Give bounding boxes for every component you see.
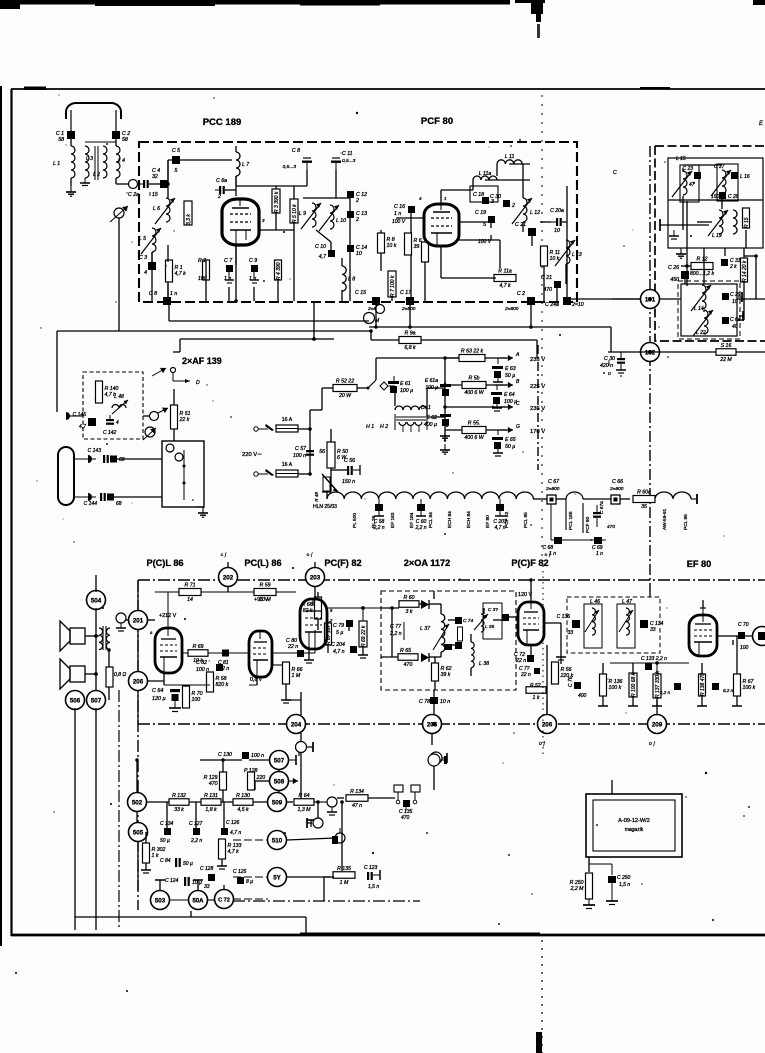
svg-text:L 10: L 10 [336, 218, 346, 224]
resistor R140 [96, 381, 119, 403]
capacitor C67a [593, 501, 615, 530]
scan artifact top blob [515, 0, 545, 38]
svg-text:R 4 390: R 4 390 [276, 262, 282, 280]
wire plate rail [259, 229, 294, 231]
wire 502 up [136, 760, 138, 792]
wire r100 d [632, 697, 634, 706]
node 502 [128, 793, 147, 812]
wire col 278 [277, 280, 279, 301]
label 100 V [478, 239, 492, 245]
label L12 [530, 210, 540, 216]
wire [441, 277, 496, 279]
junction spk2 [94, 672, 98, 676]
capacitor C57 [293, 443, 314, 465]
svg-text:C 3: C 3 [139, 255, 147, 261]
svg-text:C 8: C 8 [292, 148, 300, 154]
wire R12 l [681, 265, 691, 267]
resistor R71 [179, 583, 201, 604]
svg-text:100: 100 [192, 697, 201, 703]
capacitor C76b [568, 676, 587, 699]
label L10 [336, 218, 346, 224]
cut label E [759, 121, 764, 127]
IF unit dashed box [655, 146, 765, 341]
svg-text:D: D [196, 380, 200, 386]
wire fuse1 [298, 428, 310, 430]
capacitor C143 [88, 448, 125, 463]
junction q [221, 758, 225, 762]
heater label PCF 82 [504, 511, 510, 528]
wire c15 dn [375, 305, 377, 327]
label R2 [198, 258, 206, 264]
arrow C [500, 404, 513, 410]
svg-text:204: 204 [291, 721, 302, 728]
svg-text:E 65: E 65 [505, 437, 516, 443]
coil L16 [711, 170, 731, 196]
label +212V [159, 613, 177, 619]
wire r134 l [337, 797, 344, 799]
svg-text:4,7 n: 4,7 n [230, 830, 241, 836]
switch H1 [366, 380, 376, 430]
capacitor C18 box [470, 186, 498, 205]
capacitor C80 [286, 638, 304, 657]
capacitor C67 [545, 479, 560, 504]
heater loop left [550, 504, 552, 540]
svg-text:22 n: 22 n [515, 658, 526, 664]
resistor R60 [399, 595, 419, 615]
node 511 [268, 868, 287, 887]
wire R10 dn [424, 262, 426, 301]
svg-text:R 60: R 60 [404, 595, 415, 601]
wire pcf82 down [530, 645, 532, 655]
wire g rail dn [444, 430, 446, 442]
capacitor C20a [550, 208, 564, 234]
coil L46 [584, 599, 602, 648]
svg-text:C 56: C 56 [344, 458, 355, 464]
svg-text:L 46: L 46 [590, 599, 600, 605]
wire R14 d [743, 282, 745, 299]
svg-text:C 123: C 123 [364, 865, 378, 871]
wire col 152b [151, 270, 153, 301]
wire net bottom drop [305, 917, 307, 934]
capacitor C1 [56, 131, 75, 143]
AF amp dashed box [83, 372, 143, 439]
svg-text:39 k: 39 k [441, 672, 451, 678]
svg-text:5Y: 5Y [273, 874, 281, 881]
svg-text:C 2: C 2 [517, 291, 525, 297]
wire ef80 grid [610, 663, 689, 674]
wire y340 drop [370, 331, 372, 340]
svg-text:400 6 W: 400 6 W [464, 390, 484, 396]
svg-text:400: 400 [578, 693, 587, 699]
junction i [166, 299, 170, 303]
wire c130 [200, 759, 242, 761]
wire heater l [322, 491, 331, 493]
svg-text:EF 80: EF 80 [485, 515, 491, 528]
svg-text:L 48: L 48 [114, 394, 124, 400]
wire if mid [697, 221, 712, 223]
IF inner box [668, 158, 763, 248]
heater chain coils [327, 492, 533, 499]
svg-text:PCF 80: PCF 80 [585, 516, 591, 533]
antenna VHF dipole [66, 103, 121, 140]
switch arrow 2 [152, 408, 168, 416]
svg-text:B: B [516, 379, 520, 385]
capacitor E65 [492, 430, 516, 456]
wire L11 top [496, 164, 498, 176]
wire [167, 245, 169, 262]
capacitor C4 blob [152, 168, 168, 188]
svg-text:C 79: C 79 [333, 623, 344, 629]
wire fuse2 [298, 473, 310, 475]
wire dr1 top [394, 388, 396, 406]
resistor R16 [716, 343, 736, 363]
ground R250 [583, 899, 595, 909]
wire dr1 r [426, 388, 428, 417]
wire if l15 [682, 168, 684, 172]
border top [11, 87, 765, 91]
tuner inner line [183, 450, 186, 500]
resistor R65 [398, 654, 418, 668]
wire c79 lk [348, 627, 350, 631]
wire y327 [369, 326, 611, 328]
svg-text:470: 470 [607, 524, 615, 530]
svg-text:505: 505 [133, 829, 144, 836]
wire [167, 184, 169, 199]
wire heater start [326, 492, 328, 499]
wire C26 d [684, 279, 686, 284]
speaker LS2 [60, 659, 85, 689]
junction det [361, 606, 365, 610]
uhf feed top [74, 455, 96, 463]
label 235V A [530, 357, 545, 363]
node 507 [87, 691, 106, 710]
svg-text:R 49: R 49 [314, 492, 319, 502]
wire 206b up [546, 645, 548, 715]
resistor R4 [275, 260, 282, 280]
svg-text:R 5b: R 5b [469, 376, 480, 382]
wire sw rail [375, 358, 377, 380]
wire 201 202 [148, 619, 155, 621]
svg-text:P(C)L 86: P(C)L 86 [146, 558, 183, 568]
wire r138 d [701, 696, 703, 706]
capacitor C250 [608, 875, 631, 901]
fold dotted lower [542, 560, 544, 755]
wire 204 up [300, 692, 302, 715]
capacitor C137 [712, 683, 734, 693]
wire r302 gd [145, 863, 147, 870]
svg-text:507: 507 [274, 757, 285, 764]
svg-text:C 57: C 57 [295, 446, 307, 452]
svg-text:C 145: C 145 [73, 412, 87, 418]
svg-text:10: 10 [732, 299, 738, 305]
switch arrow 1 [152, 368, 166, 376]
label L22 [696, 330, 706, 336]
svg-text:502: 502 [132, 799, 143, 806]
svg-text:C 144: C 144 [84, 501, 98, 507]
wire C rail [445, 406, 507, 408]
heater label EF 80 [485, 515, 491, 528]
svg-text:4: 4 [116, 420, 119, 426]
node 102 [641, 343, 660, 362]
junction f [443, 405, 447, 409]
wire y340 [371, 339, 537, 341]
wire 511 dash [233, 898, 268, 900]
svg-text:10 k: 10 k [387, 243, 397, 249]
node 201 [129, 611, 148, 630]
svg-text:2,2 M: 2,2 M [570, 886, 585, 892]
capacitor C134b [160, 821, 174, 844]
svg-text:R 69: R 69 [193, 644, 204, 650]
svg-text:4,5 k: 4,5 k [237, 807, 249, 813]
label L19 [712, 233, 722, 239]
svg-text:120 V: 120 V [518, 592, 532, 598]
wire [235, 176, 237, 196]
svg-text:2=800: 2=800 [504, 306, 519, 312]
tube PCF82b envelope [518, 602, 544, 645]
tube PCF82a envelope [300, 599, 333, 649]
terminal 507r [295, 748, 303, 756]
svg-text:PCL 86: PCL 86 [683, 514, 689, 530]
wire det rail [381, 607, 399, 609]
svg-text:G: G [516, 424, 520, 430]
resistor R136 [600, 674, 623, 696]
svg-text:509: 509 [272, 799, 283, 806]
network frame [139, 747, 302, 749]
capacitor C204 [331, 642, 357, 655]
junction spk [94, 634, 98, 638]
resistor R70 [183, 686, 203, 708]
tube PCL86 envelope [150, 628, 182, 673]
capacitor C27 blob [731, 172, 750, 180]
svg-text:2=800: 2=800 [609, 486, 624, 492]
svg-text:E 61: E 61 [400, 381, 411, 387]
svg-text:C 142: C 142 [103, 430, 117, 436]
junction r [432, 722, 436, 726]
capacitor C7 [224, 258, 234, 283]
coil L14 [691, 285, 711, 311]
wire pcl86b dn [256, 677, 258, 685]
svg-text:3: 3 [262, 218, 265, 223]
fuse 1 [254, 417, 298, 432]
wire L38 t [470, 634, 472, 642]
svg-text:PCL 185: PCL 185 [568, 511, 574, 530]
wire c74 r [509, 616, 516, 618]
node 508 [270, 772, 289, 791]
svg-text:14: 14 [187, 597, 193, 603]
label 2xAF 139 [182, 356, 222, 366]
svg-text:1 n: 1 n [394, 211, 401, 217]
wire col 152 [151, 252, 153, 262]
wire 502 down [136, 812, 138, 822]
svg-text:C 3?: C 3? [488, 607, 498, 613]
coil L19 [708, 210, 728, 236]
svg-text:HLN 25/03: HLN 25/03 [313, 504, 337, 510]
svg-text:50 µ: 50 µ [505, 444, 515, 450]
wire [85, 141, 116, 143]
transformer core [95, 146, 98, 180]
resistor R50 [319, 442, 348, 468]
label R65 [400, 648, 411, 654]
wire bus 443b [427, 416, 445, 418]
wire cath col [235, 245, 237, 301]
wire L11 r [509, 163, 530, 165]
wire audio sig [182, 652, 249, 654]
capacitor C135b [659, 683, 681, 695]
svg-text:R 63 22 k: R 63 22 k [461, 349, 484, 355]
wire 202 up [227, 562, 229, 568]
wire if 756d [755, 256, 757, 299]
capacitor C134 [640, 620, 664, 633]
svg-text:C 30: C 30 [604, 356, 615, 362]
wire r52 r [357, 387, 368, 389]
coil L10 [319, 205, 339, 231]
wire pcf topr [441, 189, 473, 191]
svg-text:1,8 k: 1,8 k [205, 807, 217, 813]
svg-text:220 V∼: 220 V∼ [242, 452, 262, 458]
capacitor C135 [399, 800, 413, 821]
junction if 687 [685, 264, 689, 268]
wire 204 net [286, 699, 301, 701]
wire 0R8 bot [108, 687, 110, 700]
svg-text:1,3 M: 1,3 M [298, 807, 312, 813]
terminal M [364, 313, 375, 324]
svg-text:120 µ: 120 µ [152, 696, 166, 702]
resistor R14 [741, 258, 748, 282]
svg-text:L 13: L 13 [572, 252, 582, 258]
label o 209 [649, 741, 656, 747]
capacitor C2 [112, 131, 130, 143]
wire top rail pcc [167, 160, 169, 184]
svg-text:50 µ: 50 µ [183, 861, 193, 867]
cap bar L14 [738, 292, 742, 302]
heater label PL 36 [371, 515, 377, 528]
coil L35 [474, 614, 495, 632]
wire cath rail2 [249, 684, 257, 686]
terminal o below 102 [608, 360, 611, 377]
label 170V G [530, 429, 545, 435]
svg-text:C 72: C 72 [218, 897, 230, 903]
wire 510 r [287, 838, 335, 840]
svg-text:506: 506 [70, 697, 81, 704]
node 505 [129, 823, 148, 842]
svg-text:420 n: 420 n [600, 363, 613, 369]
svg-text:PL 500: PL 500 [352, 513, 358, 528]
svg-text:C 20a: C 20a [550, 208, 564, 214]
wire 510 left [233, 840, 268, 877]
wire heater bottom [551, 539, 606, 541]
svg-text:1 k: 1 k [533, 695, 540, 701]
capacitor C127 [189, 821, 203, 844]
svg-text:R 5?: R 5? [530, 683, 541, 689]
wire C2xa drop [313, 301, 315, 339]
capacitor C26 [668, 265, 689, 283]
capacitor C6b [722, 317, 741, 330]
switch H2 [380, 382, 388, 430]
svg-text:C 17: C 17 [400, 290, 412, 296]
diode D2 [421, 653, 429, 662]
svg-text:H 1: H 1 [366, 424, 374, 430]
capacitor C82 [196, 659, 223, 673]
wire R8 col [380, 230, 382, 233]
wire C16 col [410, 213, 412, 233]
coil L47 [617, 599, 635, 648]
wire L37 t [440, 604, 442, 614]
junction c [369, 329, 373, 333]
ground r133 [217, 866, 227, 869]
test arrow [110, 206, 128, 222]
capacitor E62 [424, 414, 451, 428]
capacitor C136 [557, 614, 580, 636]
wire if top [683, 164, 722, 166]
node 209 [648, 715, 667, 734]
svg-text:470: 470 [543, 287, 552, 293]
svg-text:C: C [516, 401, 520, 407]
wire r69b dn [362, 647, 364, 655]
circle below 204 [296, 742, 314, 753]
svg-text:0,5...3: 0,5...3 [342, 158, 356, 164]
svg-text:L 37: L 37 [420, 626, 431, 632]
terminal T 510 [307, 820, 315, 827]
wire R71 line [155, 592, 296, 628]
node 206 [538, 715, 557, 734]
wire to 205 [433, 690, 435, 715]
svg-text:1 n: 1 n [249, 276, 256, 282]
node 203 [306, 568, 325, 587]
svg-text:1 M: 1 M [340, 880, 349, 886]
svg-text:100 k: 100 k [743, 685, 756, 691]
wire bus 443 [444, 358, 446, 430]
svg-text:50 µ: 50 µ [505, 373, 515, 379]
wire pcl86 dn [163, 673, 165, 685]
svg-text:20 W: 20 W [338, 393, 352, 399]
svg-text:o❘: o❘ [539, 741, 546, 747]
svg-text:a: a [150, 630, 153, 635]
wire c130 stub [289, 755, 296, 765]
capacitor C24a [545, 297, 584, 308]
svg-text:C 10: C 10 [315, 244, 326, 250]
svg-text:L 2: L 2 [93, 172, 100, 178]
svg-text:C 133 2,2 n: C 133 2,2 n [641, 656, 667, 662]
svg-text:2,2 n: 2,2 n [414, 525, 426, 531]
heater label PCL 85 [523, 512, 529, 528]
svg-text:C 15: C 15 [355, 290, 366, 296]
capacitor C31 [721, 258, 741, 270]
svg-text:470: 470 [401, 815, 410, 821]
svg-text:C 23: C 23 [682, 166, 693, 172]
capacitor C76 blob [444, 642, 462, 650]
resistor R6a [405, 233, 424, 255]
coil L8 [342, 266, 355, 291]
wire y339 mid [180, 338, 334, 340]
junction r64r [316, 800, 320, 804]
svg-text:3 k: 3 k [406, 609, 413, 615]
svg-text:10: 10 [356, 251, 362, 257]
antenna UHF dipole [58, 447, 74, 505]
capacitor C133 [641, 656, 667, 670]
svg-text:22 n: 22 n [287, 644, 298, 650]
resistor R9a [399, 331, 421, 352]
svg-text:4,7 k: 4,7 k [499, 283, 511, 289]
heading P(C)L 86 [146, 558, 183, 568]
svg-text:1 n: 1 n [596, 551, 603, 557]
svg-text:220: 220 [256, 775, 266, 781]
coil L15 [672, 171, 692, 197]
capacitor C69 [592, 537, 603, 557]
wire C13 col [349, 218, 351, 248]
wire box101 [737, 319, 744, 321]
wire r50 up [330, 429, 332, 442]
svg-text:206: 206 [133, 678, 144, 685]
